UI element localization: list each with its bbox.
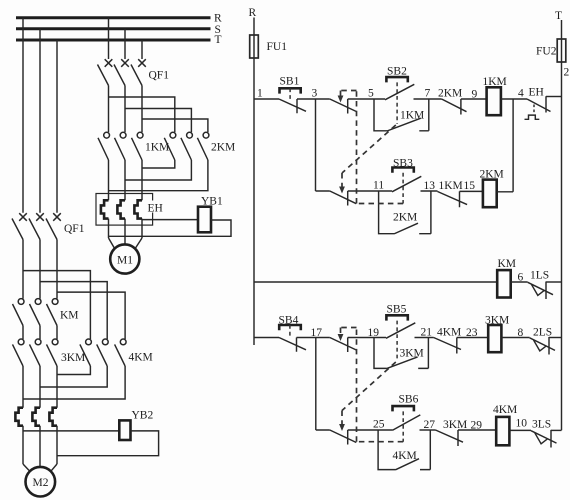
pushbutton SB4 (stop, NC) (279, 315, 307, 352)
contact SB3-linked NC (row1) (330, 99, 357, 114)
row2: contact SB2-linked NC (316, 191, 357, 206)
svg-text:1: 1 (257, 88, 263, 100)
coil 2KM (480, 169, 504, 208)
svg-text:SB2: SB2 (387, 66, 407, 78)
svg-text:1KM: 1KM (439, 180, 463, 192)
wire to node 11 (348, 190, 392, 192)
svg-text:25: 25 (373, 419, 385, 431)
fuse FU2 (536, 39, 566, 62)
wire to coil 2KM (460, 190, 483, 192)
svg-text:FU2: FU2 (536, 46, 557, 58)
wire feed 2KM pole1 (109, 97, 175, 132)
svg-text:4KM: 4KM (493, 404, 517, 416)
wire SB2 to node 7 (414, 98, 442, 100)
wire coil 2KM to node 4 (497, 191, 513, 193)
limit switch 1LS (NC) (528, 270, 562, 300)
motor M2 (26, 467, 56, 497)
contactor 1KM main contacts (98, 132, 169, 160)
linkage SB2 mechanical (dashed) (339, 82, 397, 193)
wire phase S to QF1 upper (124, 29, 126, 59)
wire 1KM outputs down through EH (109, 160, 143, 238)
svg-text:SB1: SB1 (280, 76, 300, 88)
svg-text:EH: EH (148, 203, 163, 215)
breaker QF1 (lower, for M2) (12, 213, 85, 239)
wire to coil 3KM (457, 337, 488, 339)
svg-text:5: 5 (368, 88, 374, 100)
wire phase T to QF1 upper (141, 40, 143, 59)
svg-text:R: R (214, 13, 222, 25)
wire to coil 1KM (461, 98, 487, 100)
contact 3KM aux NO (self-hold) (374, 338, 428, 369)
svg-text:EH: EH (529, 87, 544, 99)
linkage SB6 mechanical (dashed) (338, 328, 404, 442)
svg-text:QF1: QF1 (64, 223, 85, 235)
wire node4 down to row2 (512, 99, 514, 192)
coil 4KM (493, 404, 517, 445)
contactor KM main contacts (13, 299, 79, 326)
brake YB1 (198, 196, 223, 233)
wire tap phase R to QF1 lower (22, 18, 24, 213)
wire tap phase S to QF1 lower (39, 29, 41, 213)
coil 3KM (485, 315, 509, 353)
coil 1KM (483, 76, 507, 115)
wire QF1 pole3 down (141, 86, 143, 133)
wire QF1 pole2 down (124, 86, 126, 133)
svg-text:4KM: 4KM (129, 352, 153, 364)
wire motor M2 leads (23, 464, 57, 471)
heater element M2 phase1 (15, 408, 23, 426)
svg-text:9: 9 (472, 89, 478, 101)
limit switch 2LS (NC) (530, 327, 562, 355)
contact 2KM aux NO (self-hold) (379, 191, 431, 234)
wire 4KM coil to 3LS (509, 429, 531, 431)
wire to node 5 (348, 98, 385, 100)
svg-text:10: 10 (516, 418, 528, 430)
svg-text:29: 29 (471, 420, 483, 432)
wire SB1 to node 3 (297, 98, 330, 100)
wire rail to SB1 (254, 98, 279, 100)
wire SB5 to node 21 (415, 337, 434, 339)
contact 3KM NC interlock (436, 419, 468, 446)
contact 1KM aux NO (self-hold) (374, 99, 429, 131)
wire to coil 4KM (458, 429, 496, 431)
motor M1 (110, 244, 139, 273)
svg-text:4KM: 4KM (437, 327, 461, 339)
wire YB1 return (109, 220, 232, 236)
bus S (16, 24, 221, 36)
contact EH NC (thermal overload) (525, 87, 562, 120)
svg-text:2: 2 (564, 67, 570, 79)
wire SB4 to node 17 (297, 337, 330, 339)
wire phase R to QF1 upper (108, 18, 110, 59)
svg-text:3: 3 (312, 88, 318, 100)
coil KM (497, 258, 516, 298)
svg-text:R: R (249, 7, 257, 19)
wire YB2 feed (23, 430, 119, 432)
svg-text:4: 4 (518, 88, 524, 100)
brake YB2 (119, 410, 153, 441)
wire motor M1 leads (109, 238, 143, 249)
wire to node 25 (348, 429, 393, 431)
svg-text:2LS: 2LS (533, 327, 552, 339)
svg-text:13: 13 (424, 180, 436, 192)
svg-text:15: 15 (464, 180, 476, 192)
wire SB6 to node 27 (420, 429, 436, 431)
wire 3KM outputs down (23, 366, 57, 408)
svg-text:FU1: FU1 (267, 41, 288, 53)
svg-text:KM: KM (60, 310, 79, 322)
breaker QF1 (upper, for M1) (98, 59, 170, 85)
svg-text:SB6: SB6 (399, 394, 419, 406)
pushbutton SB2 (NO contact) (385, 66, 414, 100)
svg-text:7: 7 (425, 88, 431, 100)
wire 4KM pole2 crossover (40, 366, 107, 387)
wire 2KM pole2 crossover (125, 160, 191, 180)
svg-text:3KM: 3KM (400, 348, 424, 360)
svg-text:YB1: YB1 (201, 196, 223, 208)
pushbutton SB3 (NO contact) (392, 158, 421, 192)
wire 3KM coil to 2LS (501, 337, 529, 339)
wire tap phase T to QF1 lower (56, 40, 58, 213)
svg-text:23: 23 (466, 327, 478, 339)
contact 1KM NC interlock (438, 180, 468, 207)
wire feed 2KM pole2 (125, 109, 191, 133)
svg-text:2KM: 2KM (438, 88, 462, 100)
row3 wire rail to KM coil (254, 281, 497, 283)
wire tap to 4KM pole3 (57, 292, 125, 339)
svg-text:4KM: 4KM (393, 450, 417, 462)
heater element phase2 (117, 200, 125, 218)
fuse FU1 (250, 35, 288, 58)
thermal relay EH box (96, 194, 164, 226)
svg-text:2KM: 2KM (211, 142, 235, 154)
svg-text:QF1: QF1 (149, 70, 170, 82)
linkage SB5 mechanical (dashed) (339, 321, 397, 431)
linkage SB3 mechanical (dashed) (338, 91, 404, 204)
wire to node 19 (348, 337, 386, 339)
wire 2KM pole3 crossover (109, 160, 208, 191)
wire heaters to M2 (23, 426, 57, 467)
wire tap to 4KM pole1 (23, 271, 90, 340)
svg-text:3KM: 3KM (443, 419, 467, 431)
heater element M2 phase2 (32, 408, 40, 426)
wire KM coil to 1LS (511, 281, 528, 283)
svg-text:SB5: SB5 (387, 304, 407, 316)
heater element phase1 (101, 200, 109, 218)
svg-text:2KM: 2KM (393, 212, 417, 224)
wire KM outputs (23, 326, 57, 340)
wire node3 down to row2 (315, 99, 317, 191)
wire coil to EH contact (501, 98, 527, 100)
wire YB2 return (57, 431, 159, 456)
row4 wire rail to SB4 (254, 337, 279, 339)
svg-text:T: T (215, 34, 222, 46)
wire 4KM pole1 crossover (57, 366, 90, 375)
contactor 4KM main contacts (80, 339, 153, 366)
pushbutton SB5 (NO contact) (386, 304, 415, 339)
contact SB6-linked NC (row4) (330, 338, 357, 353)
svg-text:YB2: YB2 (132, 410, 154, 422)
svg-text:1KM: 1KM (400, 110, 424, 122)
svg-text:M2: M2 (33, 477, 49, 489)
svg-text:11: 11 (373, 180, 384, 192)
svg-text:21: 21 (421, 327, 433, 339)
control rail R (249, 7, 257, 345)
wire SB3 to node 13 (421, 190, 438, 192)
svg-text:1LS: 1LS (530, 270, 549, 282)
bus R (16, 13, 222, 25)
contactor 3KM main contacts (13, 339, 86, 366)
contact 2KM NC interlock (438, 88, 467, 115)
svg-text:6: 6 (518, 272, 524, 284)
heater element M2 phase3 (49, 408, 57, 426)
contact 4KM NC interlock (434, 327, 462, 354)
pushbutton SB1 (stop, NC) (279, 76, 306, 114)
pushbutton SB6 (NO contact) (393, 394, 421, 431)
contact 4KM aux NO (self-hold) (378, 430, 430, 470)
limit switch 3LS (NC) (531, 419, 562, 448)
wire 2KM pole1 crossover (142, 160, 175, 168)
svg-text:3LS: 3LS (532, 419, 551, 431)
row5: contact SB5-linked NC (316, 430, 357, 445)
svg-text:17: 17 (311, 327, 323, 339)
svg-text:27: 27 (424, 419, 436, 431)
control rail T (555, 10, 562, 430)
wire QF1 lower outputs (23, 240, 57, 299)
svg-text:1KM: 1KM (145, 142, 169, 154)
svg-text:KM: KM (498, 258, 517, 270)
heater element phase3 (134, 200, 142, 218)
bus T (16, 34, 222, 46)
wire node17 down to row5 (315, 338, 317, 431)
wire tap to 4KM pole2 (40, 282, 107, 340)
svg-text:M1: M1 (117, 255, 133, 267)
svg-text:3KM: 3KM (61, 352, 85, 364)
wire QF1 pole1 down (108, 86, 110, 133)
svg-text:8: 8 (518, 327, 524, 339)
wire 4KM pole3 crossover (23, 366, 125, 399)
svg-text:19: 19 (368, 327, 380, 339)
wire feed 2KM pole3 (142, 119, 208, 132)
wire EH to YB1 (142, 219, 198, 221)
contactor 2KM main contacts (164, 132, 235, 160)
